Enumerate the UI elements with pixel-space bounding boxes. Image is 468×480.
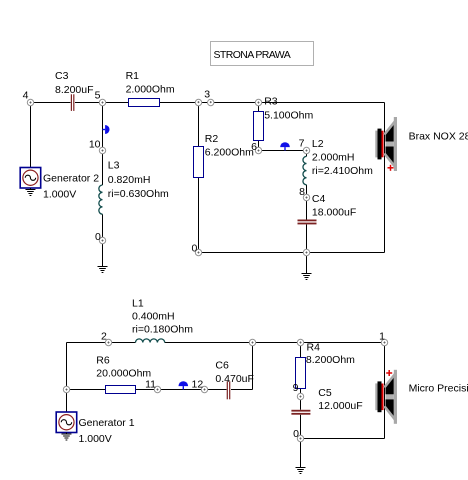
svg-text:1.000V: 1.000V <box>43 188 76 200</box>
ground (U2 Generator 2 return) <box>25 188 35 196</box>
wire node 2 left arm <box>67 342 109 344</box>
svg-text:R2: R2 <box>205 133 219 145</box>
svg-text:C5: C5 <box>318 387 332 399</box>
wire C4 to bottom rail <box>306 225 308 253</box>
wire R4 to C5 <box>300 389 302 410</box>
node 8 <box>299 186 310 201</box>
svg-text:2.000Ohm: 2.000Ohm <box>126 84 175 96</box>
node 12 <box>192 379 208 393</box>
svg-text:8: 8 <box>299 186 305 198</box>
svg-text:0.470uF: 0.470uF <box>215 373 254 385</box>
svg-text:R1: R1 <box>126 70 140 82</box>
svg-text:8.200Ohm: 8.200Ohm <box>306 354 355 366</box>
svg-text:5: 5 <box>95 90 101 102</box>
node 2 <box>101 331 112 346</box>
capacitor C6 <box>215 360 254 400</box>
svg-text:ri=0.180Ohm: ri=0.180Ohm <box>132 324 193 336</box>
wire right rail tweeter <box>384 103 386 253</box>
capacitor C4 <box>298 193 357 224</box>
node 0 (R2 bottom) <box>191 243 201 256</box>
node C6 riser top pin <box>249 339 255 345</box>
current arrow (node 5 branch) <box>103 125 110 134</box>
wire C5 to node 0 <box>300 415 302 439</box>
wire R3 branch <box>258 103 260 151</box>
node C4 bottom pin <box>303 249 309 255</box>
svg-text:0.820mH: 0.820mH <box>108 174 151 186</box>
inductor L3 <box>99 160 169 215</box>
node 11 <box>145 379 161 393</box>
wire node 5 drop <box>102 103 104 186</box>
svg-text:11: 11 <box>145 379 156 391</box>
svg-text:6: 6 <box>251 141 257 153</box>
svg-text:R3: R3 <box>264 96 278 108</box>
svg-text:ri=0.630Ohm: ri=0.630Ohm <box>108 188 169 200</box>
wire top rail <box>75 102 385 104</box>
wire R4 branch <box>300 343 302 358</box>
wire left drop to R6 rail <box>66 343 68 413</box>
svg-text:3: 3 <box>204 89 210 101</box>
generator U2 Generator 2 <box>20 168 99 201</box>
svg-text:L1: L1 <box>132 298 144 310</box>
speaker (LS1 Brax NOX 28) <box>375 117 468 171</box>
wire generator 2 feed <box>30 103 32 169</box>
svg-text:L3: L3 <box>108 160 120 172</box>
wire node 7 stub <box>306 151 308 157</box>
svg-text:Micro Precision: Micro Precision <box>409 383 468 395</box>
node R4 top pin <box>297 339 303 345</box>
svg-text:1: 1 <box>379 331 385 343</box>
node 9 <box>293 382 304 400</box>
node 3 (pin pair) <box>195 89 214 106</box>
wire bottom rail top circuit <box>199 252 385 254</box>
node 4 <box>23 90 34 106</box>
svg-text:0: 0 <box>191 243 197 255</box>
wire corner up to L1 rail <box>252 343 254 390</box>
svg-text:ri=2.410Ohm: ri=2.410Ohm <box>312 165 373 177</box>
resistor R6 <box>96 355 151 394</box>
node 0 (C5 bottom) <box>293 428 304 442</box>
ground (bottom rail) <box>302 253 312 280</box>
svg-text:7: 7 <box>299 138 305 150</box>
node 0 (L3 bottom) <box>95 231 106 244</box>
node generator 1 tee <box>63 386 69 392</box>
ground (U1 Generator 1 return) <box>61 433 71 441</box>
svg-text:8.200uF: 8.200uF <box>55 84 94 96</box>
svg-text:0: 0 <box>95 231 101 243</box>
svg-text:2.000mH: 2.000mH <box>312 152 355 164</box>
current arrow (node 11-12 wire) <box>178 381 188 389</box>
inductor L2 <box>303 138 373 185</box>
inductor L1 <box>132 298 193 343</box>
svg-text:12.000uF: 12.000uF <box>318 400 362 412</box>
current arrow (node 6-7 wire) <box>280 142 290 150</box>
svg-text:Brax NOX 28: Brax NOX 28 <box>409 131 468 143</box>
node 6 <box>251 141 262 154</box>
svg-text:0: 0 <box>293 428 299 440</box>
svg-text:R6: R6 <box>96 355 110 367</box>
wire L1 to woofer corner <box>165 342 385 344</box>
capacitor C3 <box>55 70 94 111</box>
svg-text:20.000Ohm: 20.000Ohm <box>96 368 151 380</box>
svg-text:10: 10 <box>89 139 101 151</box>
generator U1 Generator 1 <box>56 412 134 445</box>
svg-text:L2: L2 <box>312 138 324 150</box>
ground (C5 node 0) <box>296 439 306 474</box>
node 1 <box>379 331 388 346</box>
svg-text:Generator 2: Generator 2 <box>43 172 99 184</box>
wire right rail woofer <box>384 343 386 439</box>
svg-text:1.000V: 1.000V <box>79 433 112 445</box>
svg-text:STRONA PRAWA: STRONA PRAWA <box>214 49 291 61</box>
svg-text:C6: C6 <box>215 360 229 372</box>
svg-text:18.000uF: 18.000uF <box>312 207 356 219</box>
wire L2 to C4 <box>306 185 308 220</box>
wire R6 rail <box>67 389 227 391</box>
ground (L3 node 0) <box>98 244 108 273</box>
wire top rail left <box>31 102 71 104</box>
svg-text:C3: C3 <box>55 70 69 82</box>
resistor R2 <box>194 133 255 178</box>
svg-text:Generator 1: Generator 1 <box>79 417 135 429</box>
wire bottom rail woofer <box>301 438 385 440</box>
resistor R4 <box>296 342 356 389</box>
title box STRONA PRAWA <box>211 42 314 66</box>
svg-text:0.400mH: 0.400mH <box>132 311 175 323</box>
svg-text:9: 9 <box>293 382 299 394</box>
svg-text:5.100Ohm: 5.100Ohm <box>264 110 313 122</box>
wire C6 to corner <box>231 389 253 391</box>
svg-text:12: 12 <box>192 379 204 391</box>
node 7 <box>299 138 310 154</box>
svg-text:R4: R4 <box>307 342 321 354</box>
wire node 3 drop through R2 <box>198 103 200 253</box>
svg-text:2: 2 <box>101 331 107 343</box>
svg-text:C4: C4 <box>312 193 326 205</box>
wire L3 to node 0 <box>102 214 104 240</box>
node 5 <box>95 90 106 106</box>
node 10 <box>89 139 106 154</box>
resistor R1 <box>126 70 175 107</box>
node R3 top pin <box>255 99 261 105</box>
svg-text:6.200Ohm: 6.200Ohm <box>205 147 254 159</box>
capacitor C5 <box>291 387 362 415</box>
resistor R3 <box>254 96 314 141</box>
svg-text:4: 4 <box>23 90 29 102</box>
wire node 2 to L1 <box>109 342 136 344</box>
wire node 6 to node 7 <box>259 150 307 152</box>
speaker (LS2 Micro Precision) <box>375 370 468 424</box>
